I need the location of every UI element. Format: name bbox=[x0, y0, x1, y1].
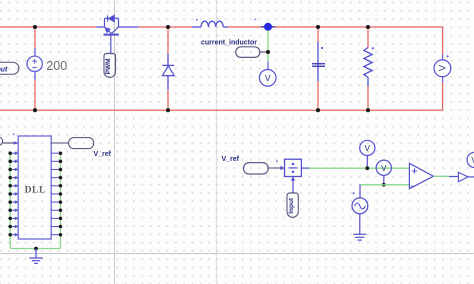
resistor R1 bbox=[364, 27, 373, 110]
probe circle (cut at right edge) bbox=[467, 152, 474, 167]
input arrow divider bottom bbox=[291, 177, 295, 181]
label box Input bbox=[287, 193, 298, 217]
wire V_ref box to divider bbox=[268, 167, 284, 169]
label box V_ref (bottom) bbox=[244, 163, 269, 174]
wire green divider output main bbox=[309, 167, 409, 169]
sheet boundary vertical line 1 bbox=[114, 0, 116, 284]
svg-text:V_ref: V_ref bbox=[94, 151, 112, 158]
wire green sine to op-amp bbox=[360, 184, 409, 186]
op-amp comparator bbox=[409, 163, 433, 189]
svg-text:V: V bbox=[265, 73, 271, 83]
voltmeter V output bbox=[434, 60, 451, 77]
voltmeter V2 bbox=[376, 160, 391, 185]
node dot res top bbox=[366, 25, 370, 29]
svg-text:200: 200 bbox=[46, 59, 67, 73]
node dot cap bottom bbox=[316, 108, 320, 112]
svg-text:out: out bbox=[0, 66, 8, 73]
dc voltage source V1 bbox=[27, 27, 42, 110]
input arrow DLL pin1 bbox=[14, 141, 18, 145]
probe label box bbox=[236, 47, 260, 58]
capacitor C1 bbox=[312, 27, 325, 110]
svg-text:Input: Input bbox=[288, 197, 295, 214]
DLL pins right with dots bbox=[51, 153, 60, 235]
gate label box PWM bbox=[104, 54, 116, 78]
wire right drop lower bbox=[442, 82, 444, 110]
wire right drop upper bbox=[442, 27, 444, 55]
wire top rail right segment bbox=[228, 26, 443, 28]
ground symbol sine bbox=[353, 234, 366, 240]
node lead right bbox=[272, 26, 275, 28]
polarity mark inductor bbox=[196, 19, 198, 21]
polarity mark divider input bbox=[276, 160, 278, 162]
wire green left bus bbox=[9, 153, 11, 248]
polarity mark sine bbox=[353, 192, 355, 194]
mosfet Q1 bbox=[96, 15, 139, 53]
svg-text:V: V bbox=[438, 65, 448, 71]
svg-text:V: V bbox=[381, 164, 387, 173]
wire bottom rail bbox=[0, 109, 443, 111]
svg-text:DLL: DLL bbox=[25, 185, 46, 195]
wire lead voltmeter bottom bbox=[442, 77, 444, 83]
junction dot V1 bbox=[365, 166, 369, 170]
wire lead probe top bbox=[267, 62, 269, 70]
inductor L1 bbox=[192, 21, 228, 27]
wire lead voltmeter top bbox=[442, 55, 444, 61]
svg-text:V_ref: V_ref bbox=[222, 156, 240, 163]
wire green op-amp output bbox=[433, 175, 449, 177]
subcircuit block DLL bbox=[18, 136, 51, 239]
divider block bbox=[285, 159, 302, 176]
DLL pins left with dots bbox=[10, 153, 18, 235]
label box at left edge (cut) bbox=[0, 137, 3, 145]
node dot at source top bbox=[33, 25, 37, 29]
wire green bottom bbox=[10, 248, 60, 250]
polarity mark node bbox=[254, 19, 256, 21]
node dot res bottom bbox=[366, 108, 370, 112]
wire Input box to divider bbox=[292, 177, 294, 194]
wire green right bus bbox=[60, 153, 62, 248]
wire DLL output to V_ref label bbox=[51, 142, 68, 144]
node dot at source bottom bbox=[33, 108, 37, 112]
junction dot on green wire bbox=[266, 50, 270, 54]
junction dot ground bbox=[34, 247, 38, 251]
wire probe box to node bbox=[260, 51, 268, 53]
wire buffer output bbox=[468, 176, 474, 178]
node dot cap top bbox=[316, 25, 320, 29]
diode D1 bbox=[162, 27, 174, 110]
node dot diode top bbox=[166, 25, 170, 29]
sine source bbox=[352, 185, 368, 235]
node (blue) after inductor bbox=[264, 23, 272, 31]
svg-text:current_inductor: current_inductor bbox=[201, 40, 257, 47]
junction dot V2 bbox=[382, 183, 386, 187]
wire divider output stub bbox=[301, 167, 309, 169]
junction dots right bus bbox=[59, 151, 63, 236]
wire label to DLL input bbox=[3, 142, 19, 144]
polarity mark resistor bbox=[372, 47, 374, 49]
buffer triangle bbox=[458, 172, 468, 182]
node dot diode bottom bbox=[166, 108, 170, 112]
sheet boundary horizontal line bbox=[0, 253, 474, 255]
polarity mark voltmeter bbox=[447, 55, 449, 57]
node lead left bbox=[261, 26, 264, 28]
ground symbol DLL bbox=[29, 249, 43, 264]
wire op-amp out to buffer bbox=[449, 176, 458, 178]
voltmeter V1 bbox=[360, 140, 375, 168]
polarity mark DLL input bbox=[13, 133, 15, 135]
sheet boundary vertical line 2 bbox=[215, 0, 217, 284]
svg-text:PWM: PWM bbox=[105, 58, 112, 74]
wire top rail middle segment bbox=[139, 26, 193, 28]
polarity mark capacitor bbox=[321, 47, 323, 49]
DLL pin arrows left bbox=[15, 151, 18, 236]
voltmeter probe under inductor bbox=[259, 70, 276, 87]
input arrow divider bbox=[280, 166, 284, 170]
wire top rail left segment bbox=[0, 26, 96, 28]
junction dots left bus bbox=[8, 151, 12, 236]
label box Vout (cut at left edge) bbox=[0, 62, 19, 74]
wire green node down bbox=[267, 31, 269, 62]
svg-text:V: V bbox=[365, 144, 371, 153]
label box V_ref (top) bbox=[69, 138, 94, 149]
